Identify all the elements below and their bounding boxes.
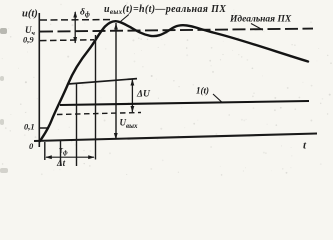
svg-text:ΔU: ΔU [136,90,151,100]
leader from 1(t) label to step line [213,94,222,102]
svg-text:0,9: 0,9 [23,35,34,45]
1(t) input step line [60,101,309,105]
svg-text:uвых(t)=h(t)—реальная ПХ: uвых(t)=h(t)—реальная ПХ [104,4,226,16]
tau-f dimension arrow below axis [45,155,94,159]
dashed line peak level [40,19,111,21]
x-axis t [34,134,317,142]
vertical below axis at x=44.8 (tau-f left bound) [44,142,46,160]
svg-text:1(t): 1(t) [196,86,209,96]
vertical grid line at x=76.5 [76,84,78,167]
dashed line Uch ideal PX level [40,29,313,32]
svg-text:u(t): u(t) [22,9,38,20]
flat-top sag horizontal line [68,79,137,84]
delta-U arrow [131,79,135,113]
0.1 level tick [39,127,49,129]
vertical below axis at x=60.5 (delta-t left bound) [60,141,62,166]
dashed lower level line [57,113,141,115]
svg-text:Δt: Δt [56,158,66,168]
leader from idealnaya label to dashed line [251,24,263,31]
curve h(t) real transient response [40,21,308,141]
svg-text:0,1: 0,1 [24,122,35,132]
dashed line 0.9 level [40,39,94,42]
leader from label to curve peak [121,15,129,22]
svg-text:Идеальная ПХ: Идеальная ПХ [229,14,292,25]
vertical grid line at x=95.5 (Uch crossing) [95,35,97,160]
overshoot arrow delta-f [73,11,77,44]
y-axis u(t) [38,13,40,147]
U_vyh measure vertical with arrows (peak to axis) [114,23,118,140]
